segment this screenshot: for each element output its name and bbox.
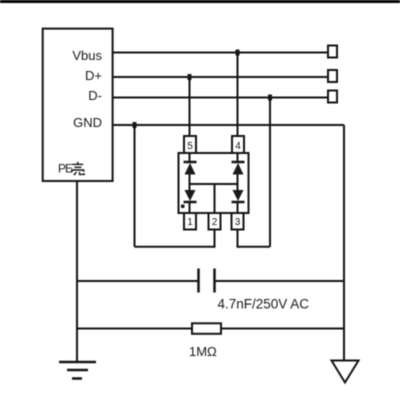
wire mid horizontal <box>190 183 238 185</box>
svg-text:D+: D+ <box>85 68 102 83</box>
wire GND bottom horizontal <box>135 246 215 248</box>
diode D2 triangle <box>185 190 196 201</box>
junction D- node <box>268 95 272 101</box>
wire right branch bottom <box>237 202 239 213</box>
wire up to pin 3 <box>237 230 239 248</box>
glyph ke (shell character) <box>72 162 85 175</box>
pin 2 box <box>209 213 221 230</box>
svg-text:Vbus: Vbus <box>72 48 102 63</box>
pin 4 box <box>232 136 244 153</box>
pin 1 marker dot <box>181 205 185 209</box>
svg-text:1: 1 <box>187 217 193 228</box>
wire GND right vertical <box>343 125 345 361</box>
junction GND node <box>133 122 137 128</box>
capacitor C1 left plate <box>197 269 200 293</box>
wire D- drop <box>269 98 271 247</box>
earth ground bar 2 <box>67 369 88 372</box>
diode D4 cathode bar <box>232 201 245 204</box>
earth ground bar 3 <box>72 377 82 380</box>
wire D+ drop to pin 5 <box>189 77 191 136</box>
top border bar <box>0 0 400 3</box>
diode D4 triangle <box>233 190 244 201</box>
pin 3 box <box>232 213 244 230</box>
wire D- bottom horizontal <box>238 246 271 248</box>
wire D+ <box>113 76 328 78</box>
svg-text:GND: GND <box>73 115 102 130</box>
earth ground bar 1 <box>59 361 96 364</box>
chassis ground triangle <box>332 361 359 383</box>
ESD array U1 package body <box>179 153 249 213</box>
wire resistor rail <box>77 328 344 330</box>
wire left branch mid <box>189 175 191 191</box>
svg-text:D-: D- <box>88 88 102 103</box>
connector square Vbus <box>328 46 337 58</box>
connector square D- <box>328 91 337 103</box>
svg-text:3: 3 <box>235 217 241 228</box>
diode D1 cathode bar <box>184 161 197 164</box>
junction D+ node <box>188 74 192 80</box>
svg-text:5: 5 <box>187 141 193 152</box>
diode D3 cathode bar <box>232 161 245 164</box>
svg-text:1MΩ: 1MΩ <box>189 344 217 359</box>
diode D2 cathode bar <box>184 201 197 204</box>
wire Vbus <box>113 52 328 54</box>
wire left branch top <box>189 153 191 162</box>
USB connector J1 <box>43 29 113 181</box>
diode D1 triangle <box>185 163 196 175</box>
pin 1 box <box>184 213 196 230</box>
wire GND drop <box>134 125 136 247</box>
svg-text:PE: PE <box>58 162 73 176</box>
connector square D+ <box>328 70 337 82</box>
wire D- <box>113 97 328 99</box>
wire GND horizontal <box>113 124 344 126</box>
wire PE vertical <box>76 181 78 362</box>
wire right branch top <box>237 153 239 162</box>
svg-text:4.7nF/250V AC: 4.7nF/250V AC <box>218 297 310 312</box>
resistor R1 body <box>192 323 221 334</box>
diode D3 triangle <box>233 163 244 175</box>
capacitor C1 right plate <box>213 269 216 293</box>
junction Vbus node <box>236 50 240 56</box>
pin 5 box <box>184 136 196 153</box>
svg-text:4: 4 <box>235 141 241 152</box>
wire Vbus drop to pin 4 <box>237 53 239 137</box>
wire up to pin 2 <box>214 230 216 248</box>
wire right branch mid <box>237 175 239 191</box>
wire capacitor rail left <box>77 280 199 282</box>
wire capacitor rail right <box>215 280 345 282</box>
svg-text:2: 2 <box>212 217 218 228</box>
wire left branch bottom <box>189 202 191 213</box>
wire mid stub to pin 2 <box>214 184 216 213</box>
